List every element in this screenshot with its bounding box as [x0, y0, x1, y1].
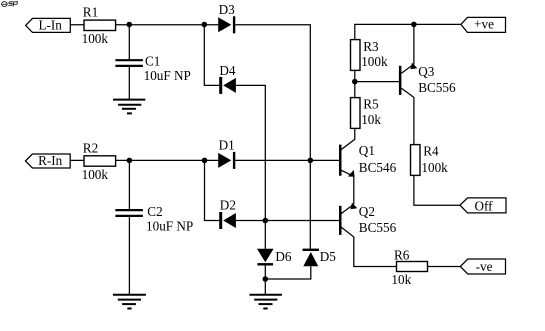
svg-text:D3: D3: [219, 2, 236, 17]
svg-text:Q1: Q1: [359, 143, 375, 158]
svg-text:100k: 100k: [82, 31, 109, 46]
node: R2 output / C2 junction: [127, 158, 133, 164]
wire: R5 bottom to Q1 collector: [341, 128, 355, 149]
svg-text:R5: R5: [363, 97, 379, 112]
resistor R2: [82, 140, 116, 182]
output tag +ve: [461, 17, 506, 33]
node: Q2 base / D4-D2 junction: [263, 218, 269, 224]
svg-text:C2: C2: [147, 204, 162, 219]
node: D3/D4 split junction: [202, 22, 208, 28]
ground (C2): [113, 295, 146, 309]
resistor R6: [391, 248, 427, 287]
wire: D4 anode right then down to D6: [236, 85, 265, 249]
wire: Q3 base: [355, 81, 399, 83]
wire: Q2 collector diagonal and down to R6: [341, 227, 397, 267]
capacitor C1: [115, 54, 190, 84]
node: Q1 base / D3-D1 junction: [308, 158, 314, 164]
diode D1: [218, 138, 235, 169]
diode D5 (pointing up): [303, 249, 337, 267]
wire: Q2 emitter diagonal: [341, 204, 354, 214]
resistor R5: [351, 97, 382, 129]
wire: top right rail to +ve: [355, 24, 461, 39]
input tag R-In: [25, 153, 70, 168]
wire: C1 to ground: [128, 67, 130, 99]
transistor Q1 BC546 (NPN): [339, 143, 397, 177]
svg-text:+ve: +ve: [474, 17, 494, 32]
node: +ve rail / Q3 emitter junction: [411, 22, 417, 28]
svg-text:R6: R6: [394, 248, 410, 263]
wire: D4 branch down from node: [204, 25, 219, 86]
wire: D6 cathode to ground: [264, 265, 266, 294]
output tag -ve: [460, 259, 505, 274]
svg-text:D4: D4: [219, 63, 236, 78]
svg-text:C1: C1: [145, 54, 160, 69]
resistor R3: [351, 39, 388, 71]
node: D6/D5 ground junction: [263, 276, 269, 282]
svg-text:L-In: L-In: [38, 18, 62, 33]
diode D3: [218, 2, 235, 33]
wire: C2 to ground: [128, 217, 130, 294]
svg-text:Q3: Q3: [418, 64, 435, 79]
wire: D2 anode to Q2 base: [236, 220, 339, 222]
diode D2: [219, 197, 236, 229]
svg-text:Q2: Q2: [359, 204, 375, 219]
wire: D3 cathode to corner, down to node at Q1 base, down to D5: [235, 25, 310, 250]
svg-text:100k: 100k: [82, 167, 109, 182]
diode D6 (pointing down): [257, 249, 292, 266]
wire: Q1 emitter to Q2 emitter: [353, 176, 355, 204]
svg-text:D6: D6: [275, 249, 292, 264]
diode D4: [219, 63, 236, 94]
svg-text:R1: R1: [83, 5, 98, 20]
svg-text:100k: 100k: [421, 160, 448, 175]
svg-text:R3: R3: [363, 39, 379, 54]
ground (D6/D5): [250, 295, 282, 309]
svg-text:10uF NP: 10uF NP: [144, 68, 191, 83]
wire: R4 bottom to Off: [414, 175, 460, 205]
svg-text:10k: 10k: [391, 272, 411, 287]
output tag Off: [460, 198, 506, 214]
wire row C: R-In to D1: [70, 159, 218, 161]
svg-text:R4: R4: [423, 143, 439, 158]
transistor Q2 BC556 (PNP): [339, 203, 397, 235]
resistor R4: [411, 143, 449, 175]
transistor Q3 BC556 (PNP): [399, 63, 456, 95]
node: Q3 base / R3-R5 junction: [352, 79, 358, 85]
wire: Q3 collector down to R4: [401, 88, 414, 144]
wire: C1 branch down from node: [128, 25, 130, 60]
wire: Q1 emitter diagonal: [341, 170, 354, 176]
wire: R3 bottom to R5 top through Q3 base node: [354, 70, 356, 97]
svg-text:100k: 100k: [361, 54, 388, 69]
svg-text:D2: D2: [220, 197, 236, 212]
svg-text:BC556: BC556: [418, 80, 456, 95]
ground (C1): [113, 100, 145, 114]
wire: Q3 emitter diagonal up to +ve rail: [401, 24, 414, 73]
svg-text:Off: Off: [474, 198, 493, 213]
wire: R6 to -ve: [428, 266, 461, 268]
resistor R1: [82, 5, 116, 46]
input tag L-In: [26, 18, 71, 33]
wire: D1 cathode to Q1 base: [235, 159, 339, 161]
svg-text:D5: D5: [320, 249, 337, 264]
node: D1/D2 split junction: [202, 158, 208, 164]
wire: branch from row C down to D2: [205, 160, 220, 220]
svg-text:-ve: -ve: [476, 259, 493, 274]
svg-text:10k: 10k: [361, 112, 381, 127]
svg-text:R2: R2: [83, 140, 98, 155]
esp logo: [2, 2, 18, 7]
capacitor C2: [115, 204, 193, 233]
wire row A: L-In to D3: [70, 24, 218, 26]
svg-text:10uF NP: 10uF NP: [146, 218, 193, 233]
svg-text:BC546: BC546: [359, 160, 397, 175]
wire: D5 anode down and left to ground node: [265, 266, 311, 279]
svg-text:D1: D1: [219, 138, 235, 153]
svg-text:R-In: R-In: [38, 153, 63, 168]
svg-text:BC556: BC556: [359, 220, 397, 235]
wire: C2 branch down: [128, 160, 130, 209]
node: R1 output / C1 junction: [127, 22, 133, 28]
